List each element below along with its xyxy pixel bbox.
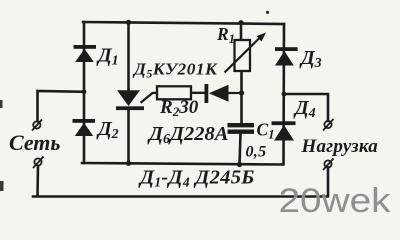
- diode D1: [74, 45, 97, 62]
- svg-text:Д5КУ201К: Д5КУ201К: [132, 60, 218, 81]
- wire C1 to bottom rail: [240, 134, 241, 165]
- wire gate to R2: [142, 93, 159, 102]
- thyristor D5: [116, 90, 144, 110]
- wire mains upper branch: [38, 91, 85, 121]
- terminal load lower: [323, 159, 334, 171]
- wire bottom rail of bridge: [82, 163, 283, 165]
- svg-text:0,5: 0,5: [246, 144, 267, 161]
- junction node gate network: [239, 90, 244, 95]
- svg-text:Д6Д228А: Д6Д228А: [147, 123, 228, 147]
- diode D6: [205, 84, 229, 103]
- wire mains lower branch: [36, 166, 39, 196]
- junction node bottom thyristor: [126, 161, 131, 166]
- ink speck: [266, 11, 269, 14]
- wire R1 bottom lead to C1: [240, 71, 243, 124]
- wire top rail: [83, 22, 284, 24]
- wire left vertical of bridge: [83, 22, 86, 163]
- svg-text:20wek: 20wek: [279, 182, 392, 220]
- edge smudge lower: [0, 181, 4, 191]
- wire R2 to D6: [191, 92, 205, 94]
- junction node left mid: [82, 89, 87, 94]
- junction node bottom C1: [237, 162, 242, 167]
- terminal mains lower: [33, 157, 44, 169]
- capacitor C1: [228, 123, 255, 134]
- junction node right mid: [282, 92, 287, 97]
- junction node top R1: [238, 20, 243, 25]
- svg-text:Сеть: Сеть: [9, 130, 60, 155]
- wire load lower branch: [327, 168, 330, 197]
- svg-text:R230: R230: [159, 97, 199, 119]
- junction node top thyristor: [126, 20, 131, 25]
- terminal mains upper: [32, 120, 42, 131]
- wire D6 to R1/C1 node: [228, 92, 243, 94]
- potentiometer R1: [225, 33, 267, 73]
- terminal load upper: [323, 119, 334, 131]
- wire right vertical of bridge: [282, 24, 285, 164]
- wire thyristor anode: [127, 22, 130, 91]
- edge smudge upper: [0, 100, 3, 108]
- wire load upper branch: [284, 94, 328, 121]
- wire R1 top lead: [240, 23, 243, 41]
- diode D2: [73, 119, 96, 136]
- svg-text:Нагрузка: Нагрузка: [301, 136, 379, 157]
- resistor R2: [157, 86, 191, 99]
- diode D4: [272, 121, 296, 140]
- diode D3: [275, 47, 298, 65]
- wire bottom mains-load link: [33, 195, 328, 198]
- wire thyristor cathode: [127, 109, 130, 164]
